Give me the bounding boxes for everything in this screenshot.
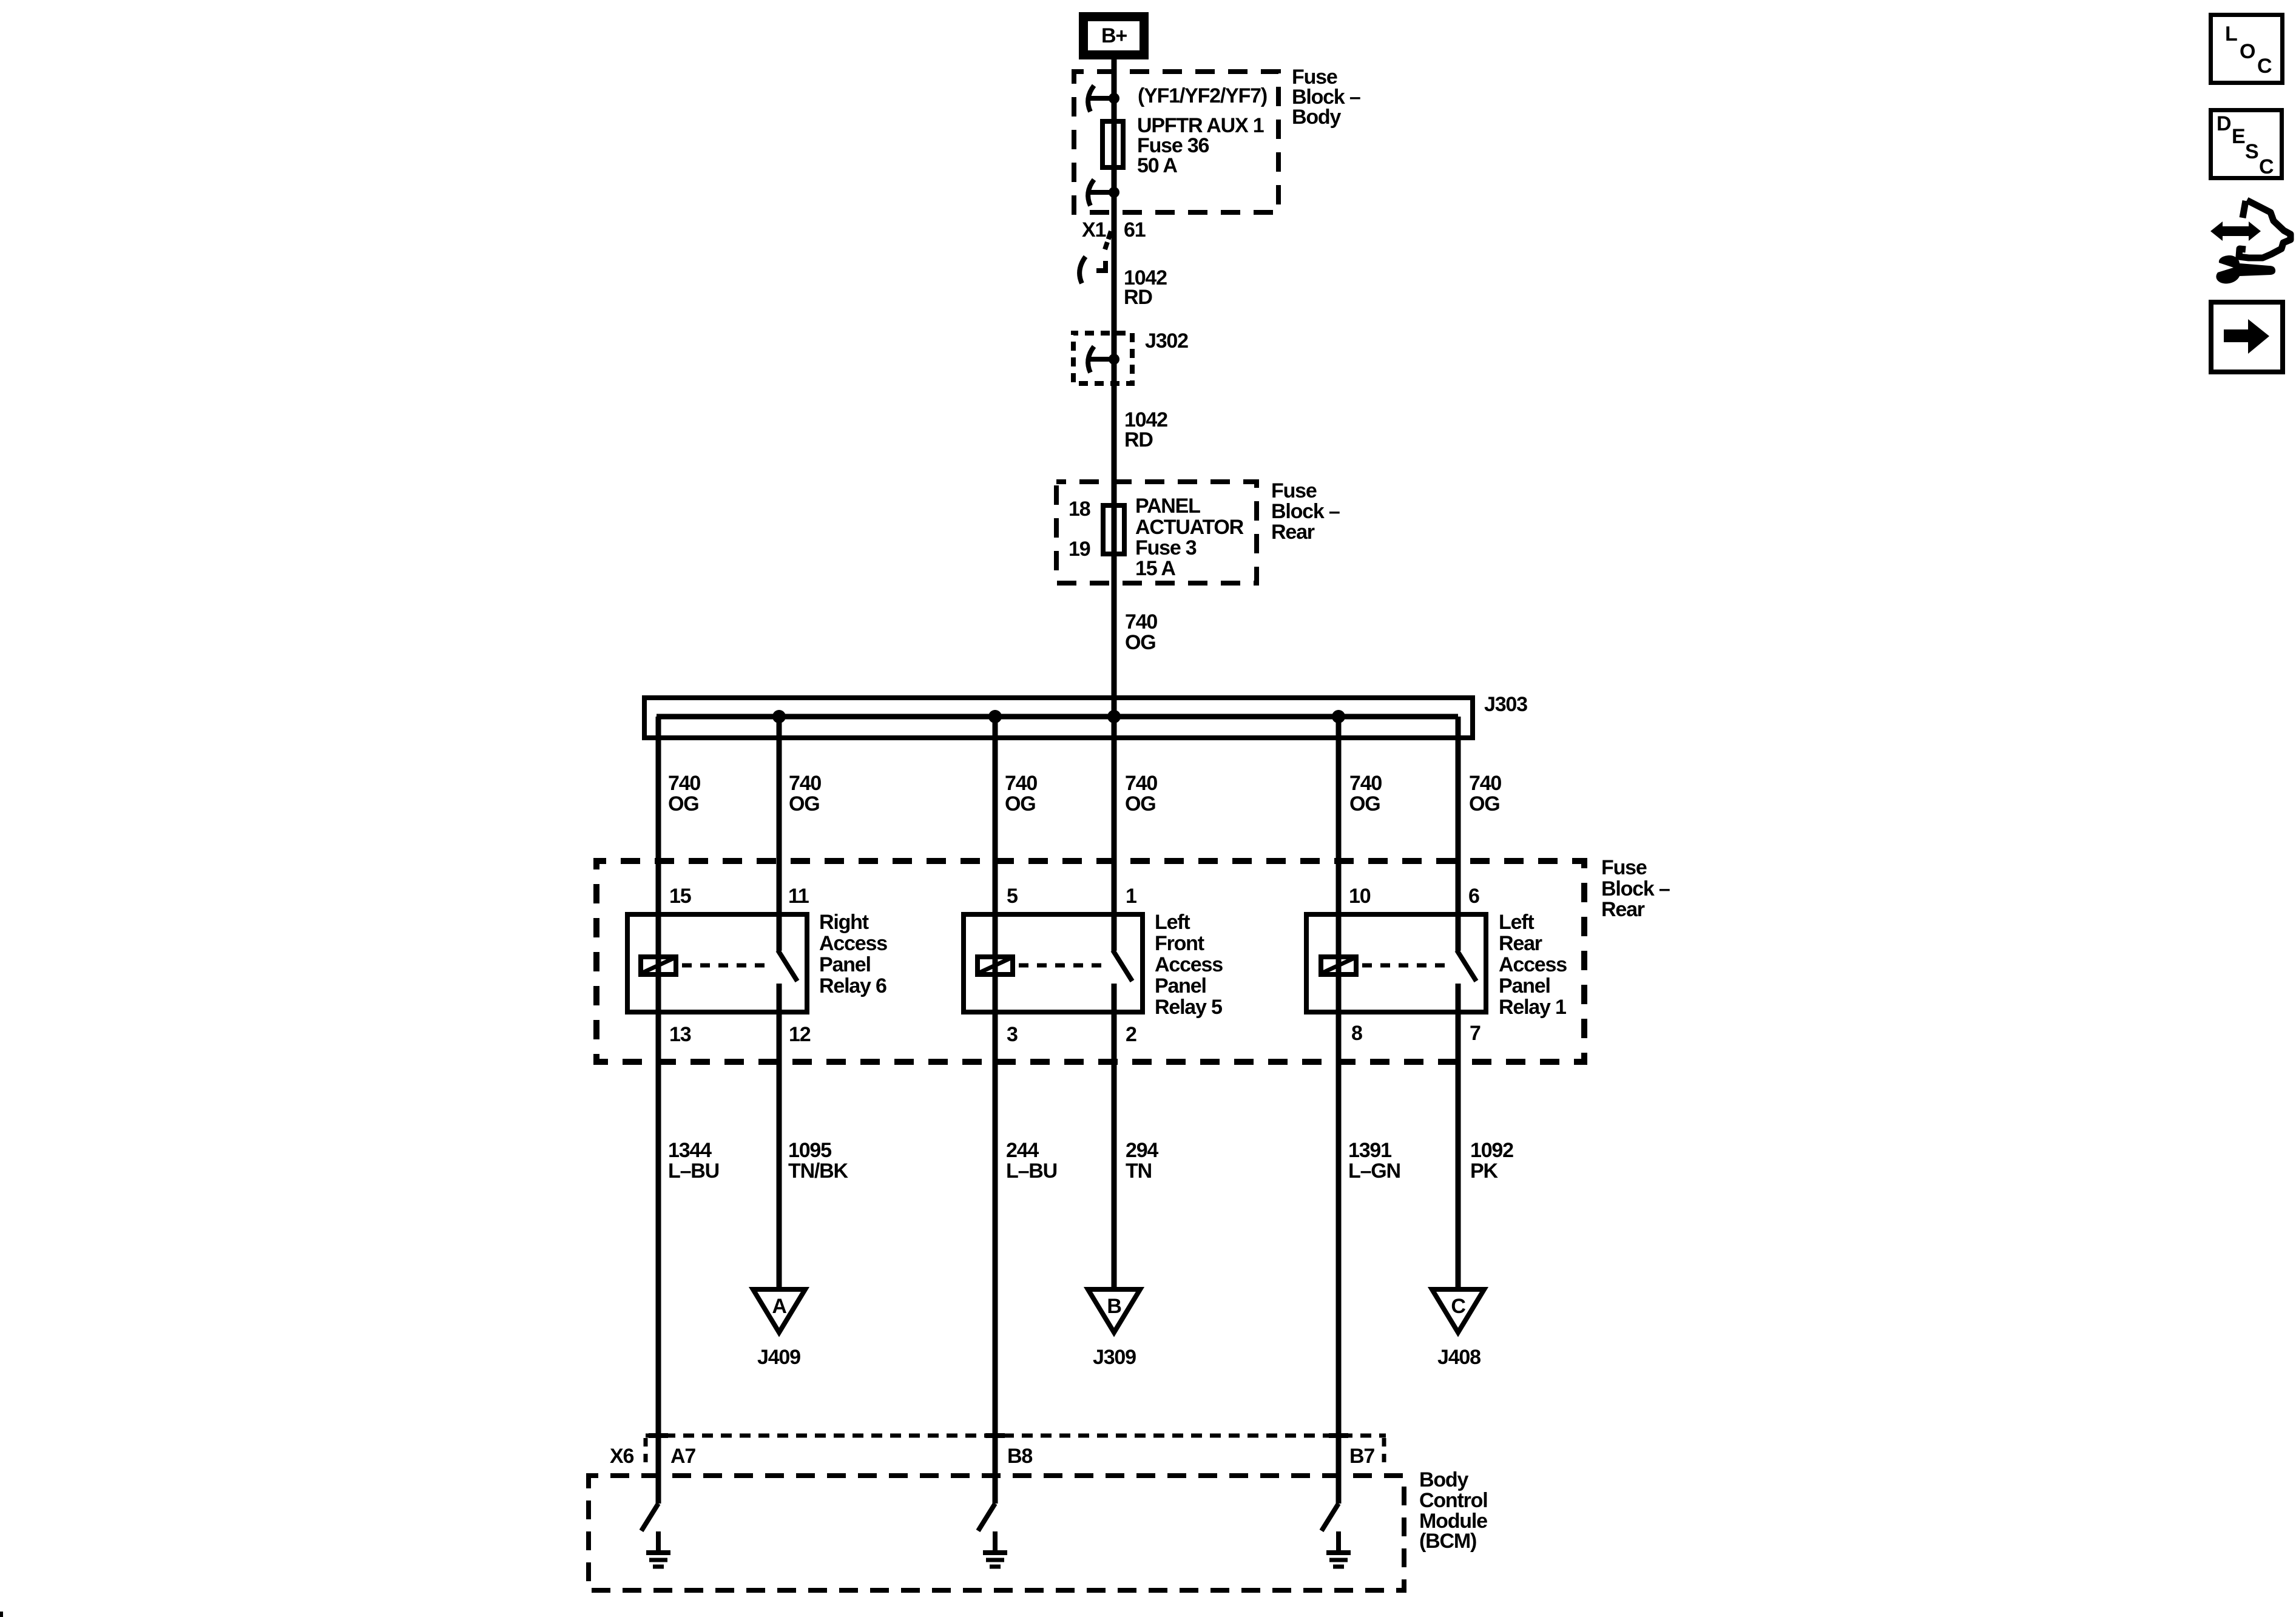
- svg-text:Access: Access: [1499, 953, 1567, 976]
- relay K5 label: [1155, 911, 1223, 1019]
- wire label 740 OG (pin 6 branch): [1469, 772, 1501, 815]
- wire J303 to relay coil pin 15 down to BCM A7: [656, 717, 661, 1504]
- svg-text:B+: B+: [1101, 24, 1127, 47]
- J302 splice clip: [1088, 346, 1119, 373]
- svg-text:740: 740: [1125, 610, 1157, 633]
- svg-text:Body: Body: [1419, 1468, 1468, 1491]
- svg-text:J408: J408: [1437, 1346, 1481, 1369]
- relay K6 coil-switch dashed link: [682, 964, 768, 968]
- relay K5 Left Front Access Panel Relay box: [964, 914, 1143, 1012]
- wire label 294 TN: [1126, 1139, 1158, 1183]
- wire label 1092 PK: [1470, 1139, 1513, 1183]
- svg-text:Right: Right: [819, 911, 869, 934]
- svg-text:E: E: [2232, 125, 2245, 148]
- svg-text:Relay 5: Relay 5: [1155, 996, 1222, 1019]
- handling/repair icon (double arrow, hand, wrench): [2210, 200, 2291, 283]
- svg-text:740: 740: [789, 772, 821, 795]
- svg-text:Rear: Rear: [1271, 521, 1315, 544]
- svg-text:Left: Left: [1155, 911, 1190, 934]
- wire through fuse 3: [1112, 503, 1117, 556]
- svg-text:L–BU: L–BU: [1006, 1160, 1057, 1183]
- junction dot (J303 / feed wire): [1107, 710, 1121, 723]
- svg-text:8: 8: [1351, 1022, 1362, 1045]
- svg-text:L: L: [2225, 22, 2237, 46]
- connector X6 dotted line: [646, 1436, 1386, 1470]
- svg-text:O: O: [2240, 40, 2255, 63]
- svg-text:L–BU: L–BU: [668, 1160, 719, 1183]
- svg-text:Body: Body: [1292, 106, 1341, 129]
- ground (BCM A7): [646, 1531, 670, 1567]
- svg-text:6: 6: [1468, 885, 1479, 908]
- svg-text:244: 244: [1006, 1139, 1039, 1162]
- svg-text:Block –: Block –: [1271, 500, 1340, 523]
- svg-text:1: 1: [1126, 885, 1136, 908]
- relay K6 switch lower contact wire to triangle A: [777, 984, 782, 1290]
- svg-text:X1: X1: [1082, 218, 1106, 241]
- svg-text:PK: PK: [1470, 1160, 1498, 1183]
- fuse block terminal clip (top): [1088, 86, 1119, 112]
- svg-text:OG: OG: [1349, 792, 1380, 815]
- svg-text:294: 294: [1126, 1139, 1158, 1162]
- svg-text:D: D: [2217, 112, 2231, 135]
- svg-text:PANEL: PANEL: [1135, 495, 1200, 518]
- svg-text:Relay 6: Relay 6: [819, 974, 886, 998]
- Fuse Block - Rear dashed box (fuse 3): [1056, 482, 1257, 583]
- BCM driver switch A7: [641, 1504, 658, 1531]
- svg-text:Panel: Panel: [1155, 974, 1206, 998]
- svg-text:Fuse 3: Fuse 3: [1135, 536, 1197, 559]
- relay K1 coil: [1321, 957, 1356, 974]
- svg-text:740: 740: [1469, 772, 1501, 795]
- svg-text:A: A: [772, 1295, 786, 1318]
- svg-text:(YF1/YF2/YF7): (YF1/YF2/YF7): [1138, 84, 1267, 107]
- svg-text:740: 740: [1125, 772, 1157, 795]
- svg-text:X6: X6: [610, 1445, 633, 1468]
- svg-text:Panel: Panel: [1499, 974, 1550, 998]
- triangle connector C: [1432, 1289, 1484, 1332]
- svg-text:OG: OG: [1125, 631, 1156, 654]
- wire J303 to relay switch pin 11: [777, 717, 782, 951]
- DESC reference icon: [2211, 110, 2282, 179]
- svg-text:TN/BK: TN/BK: [788, 1160, 849, 1183]
- svg-text:5: 5: [1007, 885, 1018, 908]
- fuse 3 (PANEL ACTUATOR): [1103, 505, 1124, 554]
- wire label 1391 L-GN: [1348, 1139, 1400, 1183]
- svg-text:J303: J303: [1484, 693, 1527, 716]
- svg-text:7: 7: [1470, 1022, 1481, 1045]
- svg-text:1391: 1391: [1348, 1139, 1391, 1162]
- connector X1 slash mark: [1105, 231, 1111, 249]
- BCM driver switch B7: [1322, 1504, 1339, 1531]
- svg-text:OG: OG: [1005, 792, 1036, 815]
- wire J303 to relay coil pin 5 down to BCM B8: [993, 717, 998, 1504]
- svg-text:Rear: Rear: [1499, 932, 1542, 955]
- svg-text:13: 13: [669, 1023, 691, 1046]
- junction dot (J303 / pin 11 wire): [772, 710, 786, 723]
- svg-text:ACTUATOR: ACTUATOR: [1135, 516, 1244, 539]
- svg-text:Access: Access: [1155, 953, 1223, 976]
- triangle connector A: [753, 1289, 805, 1332]
- svg-text:C: C: [1451, 1295, 1465, 1318]
- svg-text:2: 2: [1126, 1023, 1136, 1046]
- svg-text:OG: OG: [1125, 792, 1156, 815]
- wire J303 to relay switch pin 1: [1112, 717, 1117, 951]
- BCM label: [1419, 1468, 1487, 1553]
- wire label 740 OG (pin 1 branch): [1125, 772, 1157, 815]
- svg-text:Fuse: Fuse: [1271, 479, 1317, 502]
- svg-text:740: 740: [668, 772, 700, 795]
- in-line connector terminal symbol: [1079, 257, 1106, 283]
- svg-text:B7: B7: [1349, 1445, 1374, 1468]
- svg-text:740: 740: [1005, 772, 1037, 795]
- LOC reference icon: [2211, 15, 2283, 83]
- svg-text:61: 61: [1124, 218, 1146, 241]
- svg-text:B: B: [1107, 1295, 1121, 1318]
- relay K1 Left Rear Access Panel Relay box: [1306, 914, 1486, 1012]
- triangle connector B: [1088, 1289, 1140, 1332]
- wire J302 to Fuse Block Rear: [1112, 359, 1117, 503]
- svg-text:J309: J309: [1093, 1346, 1136, 1369]
- wire through fuse 36: [1112, 98, 1117, 192]
- wire label 244 L-BU: [1006, 1139, 1057, 1183]
- svg-text:TN: TN: [1126, 1160, 1152, 1183]
- BCM driver switch B8: [978, 1504, 995, 1531]
- J303 splice pack: [644, 698, 1473, 738]
- svg-text:740: 740: [1349, 772, 1382, 795]
- ground (BCM B8): [983, 1531, 1007, 1567]
- svg-text:Rear: Rear: [1601, 898, 1645, 921]
- relay K6 Right Access Panel Relay box: [627, 914, 807, 1012]
- J302 splice dashed box: [1073, 333, 1132, 383]
- svg-text:C: C: [2259, 155, 2274, 178]
- B+ battery positive voltage symbol: [1084, 17, 1144, 55]
- svg-text:Front: Front: [1155, 932, 1204, 955]
- svg-text:19: 19: [1069, 538, 1090, 561]
- junction dot (J303 / pin 10 wire): [1332, 710, 1345, 723]
- svg-text:L–GN: L–GN: [1348, 1160, 1400, 1183]
- relay K1 switch lower contact wire to triangle C: [1456, 984, 1461, 1290]
- svg-text:1095: 1095: [788, 1139, 831, 1162]
- svg-text:11: 11: [788, 885, 809, 908]
- svg-text:50 A: 50 A: [1137, 154, 1177, 177]
- relay K6 label: [819, 911, 887, 998]
- svg-text:S: S: [2245, 140, 2258, 163]
- wire J303 to relay coil pin 10 down to BCM B7: [1336, 717, 1342, 1504]
- svg-text:Left: Left: [1499, 911, 1534, 934]
- svg-text:10: 10: [1349, 885, 1371, 908]
- wire label 1344 L-BU: [668, 1139, 719, 1183]
- forward/arrow reference icon: [2211, 302, 2283, 372]
- wire J303 to relay switch pin 6: [1456, 717, 1461, 951]
- Fuse Block - Body label: [1292, 66, 1360, 129]
- svg-text:(BCM): (BCM): [1419, 1530, 1476, 1553]
- svg-text:J302: J302: [1145, 329, 1188, 353]
- ground (BCM B7): [1326, 1531, 1351, 1567]
- svg-text:Block –: Block –: [1601, 877, 1670, 900]
- wire label 740 OG (pin 5 branch): [1005, 772, 1037, 815]
- junction dot (J303 / pin 5 wire): [988, 710, 1002, 723]
- relay K5 coil: [977, 957, 1013, 974]
- svg-text:Fuse: Fuse: [1601, 856, 1647, 879]
- svg-text:OG: OG: [668, 792, 699, 815]
- wire label 1095 TN/BK: [788, 1139, 849, 1183]
- relay K5 coil-switch dashed link: [1019, 964, 1103, 968]
- svg-text:3: 3: [1007, 1023, 1018, 1046]
- page corner mark: [0, 1612, 3, 1617]
- svg-text:RD: RD: [1124, 286, 1152, 309]
- relay K5 switch blade: [1113, 950, 1132, 981]
- wire label 740 OG (pin 15 branch): [668, 772, 700, 815]
- wire label 740 OG (pin 11 branch): [789, 772, 821, 815]
- svg-text:1092: 1092: [1470, 1139, 1513, 1162]
- wire from B+ into Fuse Block Body: [1112, 59, 1117, 98]
- Fuse Block - Rear dashed box (relays): [596, 861, 1584, 1062]
- Fuse Block - Rear label (relays): [1601, 856, 1670, 921]
- Fuse Block - Body dashed box: [1074, 72, 1278, 212]
- svg-text:Access: Access: [819, 932, 887, 955]
- relay K6 switch blade: [778, 950, 797, 981]
- svg-text:Control: Control: [1419, 1489, 1487, 1512]
- fuse block terminal clip (bottom): [1088, 180, 1119, 206]
- svg-text:C: C: [2257, 55, 2272, 78]
- Body Control Module dashed box: [589, 1476, 1404, 1590]
- svg-text:15: 15: [669, 885, 691, 908]
- svg-text:B8: B8: [1007, 1445, 1032, 1468]
- svg-text:A7: A7: [670, 1445, 695, 1468]
- svg-text:18: 18: [1069, 498, 1090, 521]
- svg-text:Panel: Panel: [819, 953, 871, 976]
- relay K1 coil-switch dashed link: [1362, 964, 1447, 968]
- Fuse Block - Rear label: [1271, 479, 1340, 544]
- svg-text:RD: RD: [1124, 428, 1153, 451]
- svg-text:1344: 1344: [668, 1139, 712, 1162]
- wire fuse block body to J302: [1112, 192, 1117, 359]
- relay K1 switch blade: [1457, 950, 1476, 981]
- relay K1 label: [1499, 911, 1567, 1019]
- svg-text:J409: J409: [757, 1346, 800, 1369]
- svg-text:Relay 1: Relay 1: [1499, 996, 1566, 1019]
- relay K5 switch lower contact wire to triangle B: [1112, 984, 1117, 1290]
- svg-text:OG: OG: [789, 792, 820, 815]
- svg-text:OG: OG: [1469, 792, 1500, 815]
- wire fuse 3 to J303: [1112, 556, 1117, 717]
- wire label 740 OG (pin 10 branch): [1349, 772, 1382, 815]
- svg-text:12: 12: [789, 1023, 811, 1046]
- relay K6 coil: [641, 957, 676, 974]
- svg-text:15 A: 15 A: [1135, 557, 1175, 580]
- fuse 36 (UPFTR AUX 1): [1102, 121, 1123, 167]
